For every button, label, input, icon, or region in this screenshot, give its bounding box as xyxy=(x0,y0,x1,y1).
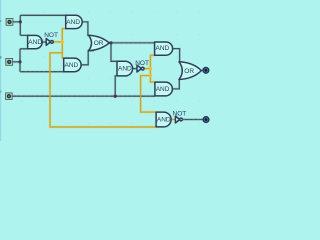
svg-text:AND: AND xyxy=(66,19,80,26)
svg-text:AND: AND xyxy=(118,66,132,73)
svg-text:NOT: NOT xyxy=(135,60,149,67)
svg-text:AND: AND xyxy=(156,45,170,52)
svg-text:AND: AND xyxy=(157,117,171,124)
svg-text:AND: AND xyxy=(28,39,42,46)
svg-text:OR: OR xyxy=(184,68,194,75)
svg-text:OR: OR xyxy=(94,40,104,47)
svg-text:AND: AND xyxy=(156,86,170,93)
svg-text:AND: AND xyxy=(65,62,79,69)
svg-text:NOT: NOT xyxy=(173,111,187,118)
svg-text:NOT: NOT xyxy=(44,32,58,39)
